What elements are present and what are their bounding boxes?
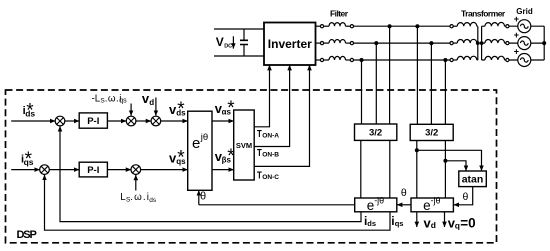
svg-text:θ: θ [463, 191, 469, 203]
svg-text:DC: DC [224, 44, 232, 50]
svg-text:*: * [177, 147, 185, 168]
svg-text:*: * [25, 149, 33, 170]
svg-text:=0: =0 [460, 215, 475, 230]
svg-text:q: q [455, 220, 460, 230]
svg-text:e: e [423, 198, 431, 213]
svg-text:Inverter: Inverter [268, 37, 312, 51]
svg-text:ON-C: ON-C [262, 174, 279, 181]
svg-text:.ω.i: .ω.i [130, 192, 150, 203]
svg-text:3/2: 3/2 [425, 127, 438, 138]
svg-text:*: * [227, 98, 235, 119]
svg-text:e: e [192, 135, 200, 152]
svg-text:*: * [177, 99, 185, 120]
svg-text:*: * [227, 146, 235, 167]
svg-text:SVM: SVM [236, 141, 252, 150]
svg-text:ON-A: ON-A [262, 132, 279, 139]
svg-text:ON-B: ON-B [262, 152, 279, 159]
svg-text:qs: qs [395, 219, 404, 228]
svg-text:qs: qs [119, 98, 127, 105]
svg-text:P-I: P-I [87, 165, 99, 176]
svg-text:Filter: Filter [330, 9, 349, 19]
svg-text:θ: θ [401, 187, 407, 199]
svg-text:+: + [514, 14, 519, 24]
svg-text:jθ: jθ [200, 132, 208, 143]
svg-text:3/2: 3/2 [369, 127, 382, 138]
svg-text:atan: atan [462, 174, 484, 186]
svg-text:+: + [514, 30, 519, 40]
svg-text:+: + [514, 47, 519, 57]
svg-text:ds: ds [367, 219, 376, 228]
svg-text:T: T [257, 129, 262, 140]
svg-text:*: * [26, 101, 34, 122]
svg-text:Transformer: Transformer [461, 9, 506, 19]
svg-text:-L: -L [92, 93, 101, 104]
svg-text:V: V [216, 35, 224, 49]
svg-text:d: d [149, 98, 154, 107]
svg-text:DSP: DSP [17, 229, 37, 241]
svg-text:θ: θ [200, 191, 206, 203]
svg-text:-jθ: -jθ [374, 196, 384, 206]
svg-text:ds: ds [149, 197, 157, 204]
svg-text:-jθ: -jθ [431, 196, 441, 206]
svg-text:P-I: P-I [87, 116, 99, 127]
svg-text:T: T [257, 148, 262, 159]
svg-text:T: T [257, 170, 262, 181]
svg-text:e: e [367, 198, 375, 213]
svg-text:d: d [431, 220, 436, 230]
